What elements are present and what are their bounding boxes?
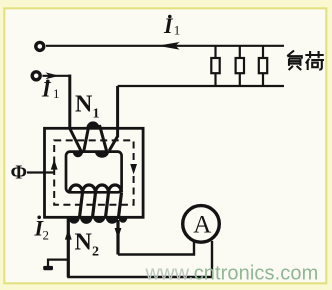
svg-text:1: 1 [174,23,181,38]
label İ1 (lower) [41,77,60,102]
wire ammeter left lead [118,242,194,255]
core inner window [66,152,122,193]
I2 arrow left lead (up) [65,229,72,240]
over-pass cap [86,121,99,128]
svg-text:A: A [193,211,211,238]
steep diagonal down [100,125,108,153]
flux pointer wire [27,171,54,173]
lower caps [68,217,127,223]
terminal T2 [32,72,40,80]
core dashed flux path [54,140,133,204]
svg-text:www.cntronics.com: www.cntronics.com [145,263,319,285]
current arrow I1 into winding [46,72,60,79]
wire bottom rail [118,85,284,87]
current arrow I1 on top rail [158,42,180,50]
primary winding N1 [70,75,118,158]
wire right lead up to rail [116,86,119,137]
wire from T2 to N1 left lead corner [42,75,69,77]
resistor R2 [236,46,244,86]
upper arcs [70,185,122,192]
wire ammeter right lead [211,241,213,277]
wire left lead down [68,75,71,130]
label 负荷 (load) hand-drawn [287,51,324,71]
label İ1 (top) [163,13,180,38]
flux arrow right (down) [130,164,137,174]
under-pass cap B [95,151,109,157]
svg-text:1: 1 [53,86,60,101]
I2 arrow right lead (down) [115,228,122,239]
label N1 [75,92,100,122]
terminal T1 [36,42,44,50]
svg-text:2: 2 [92,245,99,260]
svg-text:1: 1 [93,107,100,122]
under-pass cap A [73,151,84,157]
resistor R1 [211,46,219,86]
wire left lead [67,218,70,277]
svg-text:N: N [75,230,93,256]
label İ2 [34,216,50,243]
svg-text:Φ: Φ [11,162,28,184]
wire bottom return [67,276,213,279]
ground [43,260,68,271]
exit diagonal [109,136,117,150]
secondary winding N2 [68,185,127,277]
svg-text:N: N [75,92,93,118]
ammeter A [183,206,220,243]
wire right lead [116,220,119,255]
steep diagonal up [84,125,90,153]
face diagonal in [70,129,82,153]
core outer rectangle [45,128,144,217]
flux arrow left (up) [51,159,58,169]
wire top rail [46,45,284,47]
label N2 [75,230,100,260]
resistor R3 [259,46,267,86]
svg-text:2: 2 [43,228,50,243]
face diagonals [80,193,122,220]
